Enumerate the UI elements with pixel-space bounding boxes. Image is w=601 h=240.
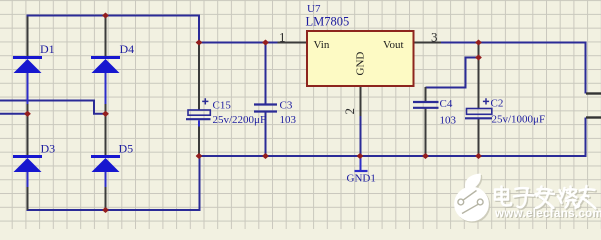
- wire top rail + pin1 feed: [27, 16, 278, 43]
- junction C2 lead and C4 step wire: [476, 55, 481, 60]
- pin D1 cathode: [27, 17, 29, 57]
- pin 3 stub U7: [414, 42, 442, 44]
- junction ground rail at pin2: [357, 154, 362, 159]
- wire AC input upper: [0, 101, 107, 114]
- pin C15 bottom: [198, 127, 200, 156]
- op-amp U7 regulator box: [307, 31, 414, 86]
- svg-text:103: 103: [280, 114, 297, 126]
- pin C4 top: [425, 87, 427, 102]
- svg-text:D1: D1: [40, 42, 55, 56]
- wire C3 leads: [265, 43, 267, 157]
- wire pin2 to ground: [360, 116, 362, 156]
- pin off-page upper: [586, 92, 601, 94]
- watermark url text: [494, 208, 601, 221]
- capacitor C4 symbol: [413, 102, 439, 108]
- wire pin3 to right: [441, 43, 586, 94]
- wire AC input lower: [0, 113, 29, 115]
- pin off-page lower: [586, 116, 601, 118]
- pin C15 top: [198, 44, 200, 111]
- svg-text:C3: C3: [280, 100, 293, 112]
- pin D4 cathode: [105, 17, 107, 57]
- wire bottom rail: [27, 156, 200, 210]
- junction ground rail at C15: [196, 154, 201, 159]
- svg-text:D4: D4: [120, 42, 135, 56]
- pin C2 bottom: [478, 119, 480, 155]
- ground symbol GND1: [355, 156, 368, 171]
- watermark logo elecfans: [454, 174, 490, 223]
- wire ground rail: [199, 155, 587, 157]
- svg-text:C15: C15: [213, 100, 232, 112]
- junction bottom rail at D5: [103, 208, 108, 213]
- pin D3 cathode: [27, 104, 29, 156]
- capacitor C15 symbol: [186, 98, 211, 126]
- svg-text:Vin: Vin: [314, 39, 330, 51]
- svg-text:2: 2: [342, 108, 357, 115]
- pin C2 top: [478, 44, 480, 109]
- junction ground rail at C4: [423, 154, 428, 159]
- junction pin1 wire at C3: [263, 40, 268, 45]
- svg-text:U7: U7: [307, 3, 321, 15]
- watermark chinese text: [495, 186, 597, 210]
- svg-text:GND: GND: [355, 52, 367, 76]
- diode D1: [13, 58, 42, 105]
- svg-text:C2: C2: [491, 98, 504, 110]
- svg-text:25v/2200μF: 25v/2200μF: [213, 114, 267, 126]
- capacitor C2 symbol: [465, 98, 492, 118]
- junction ground rail at C2: [476, 154, 481, 159]
- junction top rail at D4: [103, 13, 108, 18]
- pin D5 cathode: [105, 104, 107, 156]
- svg-text:www.elecfans.com: www.elecfans.com: [494, 208, 601, 220]
- junction pin1 wire at C15 drop: [196, 40, 201, 45]
- junction AC input at D1-D3: [25, 111, 30, 116]
- pin 2 stub U7: [360, 86, 362, 116]
- svg-text:GND1: GND1: [347, 173, 376, 185]
- svg-text:Vout: Vout: [383, 39, 404, 51]
- pin D5 anode: [105, 187, 107, 211]
- svg-text:3: 3: [431, 30, 438, 45]
- svg-text:25v/1000μF: 25v/1000μF: [492, 114, 546, 126]
- diode D3: [13, 157, 42, 188]
- diode D4: [91, 58, 120, 105]
- wire C4 step to C2: [426, 58, 479, 88]
- wire right notch lower: [585, 118, 587, 157]
- svg-text:D3: D3: [41, 142, 56, 156]
- svg-text:1: 1: [279, 30, 286, 45]
- capacitor C3 symbol: [254, 105, 277, 112]
- pin C4 bottom: [425, 108, 427, 155]
- pin D3 anode: [27, 187, 29, 211]
- junction pin3 wire at C2: [476, 40, 481, 45]
- junction ground rail at C3: [263, 154, 268, 159]
- diode D5: [91, 157, 120, 188]
- svg-text:LM7805: LM7805: [306, 15, 350, 29]
- svg-text:D5: D5: [119, 142, 134, 156]
- svg-text:103: 103: [440, 115, 457, 127]
- pin 1 stub U7: [278, 42, 308, 44]
- junction AC input at D4-D5: [103, 111, 108, 116]
- svg-text:C4: C4: [440, 98, 453, 110]
